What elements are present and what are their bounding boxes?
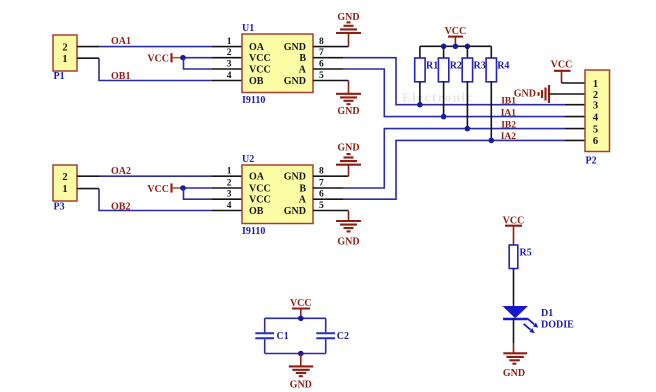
op-amp U1 (I9110 driver) — [242, 23, 313, 106]
svg-text:R1: R1 — [426, 61, 438, 72]
svg-text:8: 8 — [319, 167, 324, 177]
ground below capacitors — [289, 366, 313, 390]
svg-text:6: 6 — [319, 60, 324, 70]
svg-text:GND: GND — [514, 89, 536, 100]
power symbol VCC at capacitors — [290, 298, 312, 318]
ground below LED — [503, 353, 527, 379]
svg-text:U2: U2 — [242, 154, 254, 165]
svg-text:I9110: I9110 — [242, 95, 265, 106]
ground (rotated) at P2 pin2 — [514, 85, 549, 103]
wire LED to ground — [513, 318, 515, 353]
svg-text:DODIE: DODIE — [541, 319, 574, 330]
svg-text:IA2: IA2 — [501, 132, 517, 142]
svg-text:1: 1 — [227, 167, 232, 177]
wire VCC to U1 pin2 — [180, 57, 242, 59]
ground below U2 pin5 — [336, 221, 361, 248]
wire cap bottom to ground — [300, 354, 302, 367]
svg-text:VCC: VCC — [249, 65, 271, 76]
wire R5 to LED — [513, 269, 515, 307]
wire capacitor bottom rail — [265, 353, 326, 355]
connector P3 — [53, 165, 77, 213]
junction cap bottom — [298, 351, 304, 357]
svg-text:B: B — [299, 53, 306, 64]
wire OA1 (P1 pin2 to U1 pin1) — [77, 46, 242, 48]
svg-text:Electronic: Electronic — [402, 90, 474, 105]
svg-text:6: 6 — [593, 136, 598, 147]
svg-text:7: 7 — [319, 48, 324, 58]
resistor R2 — [438, 46, 462, 116]
svg-text:GND: GND — [284, 206, 306, 217]
svg-text:5: 5 — [319, 71, 324, 81]
svg-text:P1: P1 — [54, 71, 65, 82]
ground (inverted) above U2 pin8 — [336, 143, 361, 165]
wire OB2 (P3 pin1 to U2 pin4) — [77, 189, 242, 211]
svg-text:GND: GND — [337, 12, 359, 23]
svg-text:VCC: VCC — [445, 26, 467, 37]
wire OB1 (P1 pin1 to U1 pin4) — [77, 58, 242, 80]
svg-text:R5: R5 — [520, 248, 532, 259]
svg-text:GND: GND — [284, 42, 306, 53]
svg-text:GND: GND — [337, 143, 359, 154]
svg-text:1: 1 — [62, 54, 67, 65]
wire capacitor top rail — [265, 317, 326, 319]
junction at U2 VCC — [180, 185, 186, 191]
svg-text:4: 4 — [227, 71, 232, 81]
svg-text:B: B — [299, 184, 306, 195]
svg-text:GND: GND — [284, 76, 306, 87]
wire VCC to U2 pin2 — [180, 187, 242, 189]
wire VCC to U2 pin3 — [184, 188, 243, 199]
wire U2 pin7 (B) to net IB2 — [313, 129, 585, 188]
U1 pin numbers — [227, 37, 324, 81]
power symbol VCC at resistor network — [445, 26, 467, 47]
capacitor C2 — [316, 331, 349, 342]
svg-text:VCC: VCC — [290, 298, 312, 309]
wire resistor top bus — [420, 45, 491, 47]
svg-text:OA: OA — [249, 42, 265, 53]
connector P2 — [585, 70, 610, 167]
svg-text:GND: GND — [337, 237, 359, 248]
svg-text:GND: GND — [337, 106, 359, 117]
ground (inverted) above U1 pin8 — [336, 12, 361, 33]
svg-text:VCC: VCC — [249, 53, 271, 64]
wire C1 leads — [264, 318, 266, 353]
capacitor C1 — [255, 331, 288, 342]
connector P1 — [53, 35, 77, 82]
wire U1 pin6 (A) to net IA1 — [313, 69, 585, 117]
svg-text:3: 3 — [227, 190, 232, 200]
svg-text:VCC: VCC — [249, 184, 271, 195]
resistor R3 — [462, 46, 486, 128]
svg-text:R2: R2 — [450, 61, 462, 72]
svg-text:GND: GND — [290, 380, 312, 391]
ground below U1 pin5 — [336, 94, 361, 117]
svg-text:I9110: I9110 — [242, 226, 265, 237]
wire U1 pin5 to ground — [313, 81, 349, 94]
svg-text:OB2: OB2 — [111, 201, 130, 212]
svg-text:OA2: OA2 — [111, 166, 131, 177]
svg-text:1: 1 — [593, 79, 598, 90]
svg-text:R3: R3 — [474, 61, 486, 72]
wire U2 pin8 to ground — [313, 165, 349, 177]
junction at U1 VCC — [180, 55, 186, 61]
svg-text:3: 3 — [227, 60, 232, 70]
svg-text:2: 2 — [62, 172, 67, 183]
wire U1 pin8 to ground — [313, 33, 349, 47]
svg-text:D1: D1 — [541, 308, 553, 319]
svg-text:R4: R4 — [497, 61, 509, 72]
wire VCC to U1 pin3 — [184, 58, 243, 69]
junction R1/IB1 — [417, 102, 423, 108]
svg-text:5: 5 — [319, 201, 324, 211]
svg-text:6: 6 — [319, 190, 324, 200]
svg-text:4: 4 — [227, 201, 232, 211]
svg-text:8: 8 — [319, 37, 324, 47]
svg-text:OA1: OA1 — [111, 36, 131, 47]
junction R2 top — [441, 44, 447, 50]
svg-text:OB: OB — [249, 206, 264, 217]
svg-text:VCC: VCC — [551, 60, 573, 71]
LED D1 — [502, 306, 528, 319]
svg-text:3: 3 — [593, 101, 598, 112]
svg-text:OA: OA — [249, 172, 265, 183]
power symbol VCC at U2 — [147, 183, 180, 194]
svg-text:1: 1 — [227, 37, 232, 47]
wire U2 pin5 to ground — [313, 211, 349, 222]
op-amp U2 (I9110 driver) — [242, 154, 313, 237]
power symbol VCC at U1 — [147, 53, 180, 64]
svg-text:4: 4 — [593, 112, 599, 123]
wire U2 pin6 (A) to net IA2 — [313, 140, 585, 199]
svg-text:2: 2 — [227, 48, 232, 58]
LED emission arrows — [524, 318, 539, 333]
svg-text:5: 5 — [593, 124, 598, 135]
svg-text:1: 1 — [62, 184, 67, 195]
svg-text:A: A — [299, 195, 307, 206]
svg-text:C2: C2 — [337, 331, 349, 342]
wire U1 pin7 (B) to net IB1 — [313, 58, 585, 105]
svg-text:IA1: IA1 — [501, 108, 517, 118]
resistor R4 — [486, 46, 509, 140]
wire VCC to P2 pin1 — [562, 82, 586, 84]
svg-text:7: 7 — [319, 179, 324, 189]
svg-text:U1: U1 — [242, 23, 254, 34]
svg-text:VCC: VCC — [147, 184, 169, 195]
power symbol VCC at P2 — [551, 60, 573, 84]
svg-text:OB: OB — [249, 76, 264, 87]
svg-text:VCC: VCC — [249, 195, 271, 206]
junction VCC drop — [453, 44, 459, 50]
svg-text:P2: P2 — [586, 156, 597, 167]
wire C2 leads — [325, 318, 327, 353]
junction R3 top — [465, 44, 471, 50]
svg-text:IB2: IB2 — [501, 120, 516, 130]
svg-text:P3: P3 — [54, 202, 65, 213]
wire ground to P2 pin2 — [549, 93, 585, 95]
svg-text:GND: GND — [284, 172, 306, 183]
resistor R5 — [509, 245, 532, 269]
svg-text:GND: GND — [503, 368, 525, 379]
wire OA2 (P3 pin2 to U2 pin1) — [77, 175, 242, 177]
junction R3/IB2 — [465, 126, 471, 132]
junction cap top — [298, 316, 304, 322]
resistor R1 — [415, 46, 439, 104]
junction R2/IA1 — [441, 114, 447, 120]
svg-text:C1: C1 — [277, 331, 289, 342]
svg-text:A: A — [299, 65, 307, 76]
svg-text:2: 2 — [593, 90, 598, 101]
power symbol VCC at LED branch — [503, 215, 525, 245]
svg-text:2: 2 — [227, 179, 232, 189]
svg-text:VCC: VCC — [147, 54, 169, 65]
junction R4/IA2 — [489, 138, 495, 144]
U2 pin numbers — [227, 167, 324, 211]
svg-text:OB1: OB1 — [111, 71, 130, 82]
svg-text:2: 2 — [62, 42, 67, 53]
